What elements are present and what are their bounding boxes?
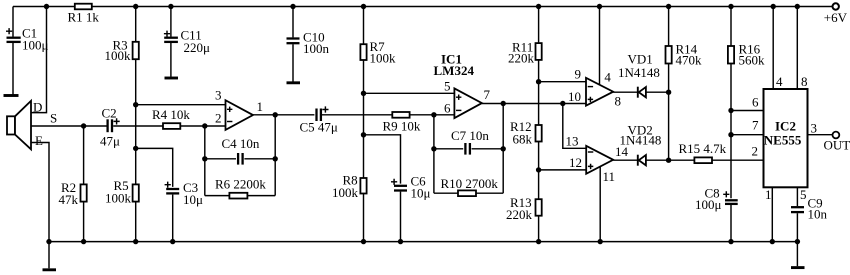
node R14 top rail	[666, 4, 671, 9]
label VD1	[618, 52, 660, 80]
label R12 value	[510, 119, 533, 147]
label C1 value	[22, 26, 49, 53]
svg-text:9: 9	[575, 67, 582, 82]
svg-text:IC2: IC2	[775, 118, 796, 133]
node rail C6	[398, 239, 403, 244]
wire comparator divider vertical	[538, 60, 540, 125]
wire R16 top leg	[730, 7, 732, 47]
wire R8 bottom leg	[363, 194, 365, 242]
wire R15 to pin 2	[712, 159, 764, 161]
svg-text:100n: 100n	[303, 41, 330, 56]
resistor R8	[360, 178, 366, 194]
node C11 top rail	[168, 4, 173, 9]
label C11 value	[181, 28, 211, 56]
ground under C10	[287, 81, 301, 84]
wire pin 5 top leg	[796, 187, 798, 206]
svg-text:5: 5	[800, 187, 807, 202]
terminal OUT	[833, 132, 840, 139]
svg-text:10μ: 10μ	[183, 192, 203, 207]
resistor R13	[536, 199, 542, 216]
node rail C8	[728, 239, 733, 244]
node R7 top rail	[361, 4, 366, 9]
svg-text:13: 13	[566, 134, 579, 149]
svg-text:C5 47μ: C5 47μ	[300, 120, 338, 135]
svg-text:47k: 47k	[59, 192, 79, 207]
label R2 value	[59, 180, 79, 207]
wire op3 power pin 4	[599, 7, 601, 86]
svg-text:100k: 100k	[105, 48, 132, 63]
svg-text:100μ: 100μ	[22, 38, 49, 53]
svg-text:R15 4.7k: R15 4.7k	[679, 141, 727, 156]
wire pin 3 to OUT	[808, 134, 833, 136]
wire to pin 7	[731, 134, 764, 136]
wire C4 branch	[205, 158, 275, 160]
node bias to pin 5	[361, 91, 366, 96]
wire R2 top leg	[83, 126, 85, 184]
label VD2	[620, 123, 662, 148]
label C2 value	[100, 106, 120, 149]
svg-text:560k: 560k	[739, 53, 766, 68]
IC2 NE555 body	[764, 89, 808, 187]
diode VD1	[638, 87, 646, 98]
label R14 value	[676, 42, 703, 68]
ground left	[43, 268, 57, 271]
terminal +6V	[833, 3, 839, 9]
node C7 right	[501, 146, 506, 151]
resistor R6	[229, 193, 247, 199]
node bias to C6	[361, 132, 366, 137]
node rail C9/ground	[795, 239, 800, 244]
wire R12 to R13	[538, 142, 540, 200]
svg-text:E: E	[35, 133, 43, 148]
svg-text:1: 1	[257, 99, 264, 114]
wire C10 top leg	[292, 7, 294, 38]
node divider to pin 9	[536, 79, 541, 84]
wire R14 bottom leg	[668, 64, 670, 93]
svg-text:2: 2	[215, 111, 222, 126]
capacitor C4	[236, 153, 244, 165]
node IC1 output feedback tap	[501, 101, 506, 106]
svg-text:10: 10	[568, 89, 581, 104]
svg-text:LM324: LM324	[434, 63, 475, 78]
svg-text:R9 10k: R9 10k	[383, 119, 421, 134]
svg-text:8: 8	[615, 94, 622, 109]
node pin 4 top rail	[771, 4, 776, 9]
wire C5 to R9	[322, 114, 392, 116]
svg-text:7: 7	[752, 118, 759, 133]
label R11 value	[508, 40, 535, 66]
node rail R8	[361, 239, 366, 244]
wire C10 bottom leg	[292, 44, 294, 81]
wire R13 bottom leg	[538, 216, 540, 242]
resistor R5	[133, 184, 139, 201]
svg-text:8: 8	[801, 74, 808, 89]
node C7 left	[431, 146, 436, 151]
wire R6 branch	[205, 195, 275, 197]
wire IC1 output	[482, 103, 586, 105]
ground under C11	[165, 77, 179, 80]
svg-text:1N4148: 1N4148	[618, 65, 660, 80]
capacitor C1	[6, 28, 21, 42]
svg-text:S: S	[50, 111, 57, 126]
wire feedback2 right vertical	[502, 104, 504, 194]
wire pin 1	[771, 187, 773, 241]
node R16 top rail	[728, 4, 733, 9]
wire C2 to R4	[113, 125, 163, 127]
wire R7 top leg	[363, 7, 365, 45]
label R7 value	[370, 39, 397, 66]
label R3 value	[105, 37, 132, 63]
svg-text:220μ: 220μ	[184, 40, 211, 55]
op-amp U1.1	[226, 100, 254, 130]
label R5 value	[105, 178, 132, 206]
capacitor C5	[314, 106, 328, 121]
node C4 left	[202, 156, 207, 161]
node bias to pin3	[133, 102, 138, 107]
label C3 value	[183, 180, 203, 207]
svg-text:C2: C2	[102, 106, 117, 121]
capacitor C8	[723, 191, 738, 204]
svg-text:+6V: +6V	[824, 10, 848, 25]
wire diode node link	[668, 92, 670, 160]
node bias to C3	[133, 146, 138, 151]
wire feedback2 left vertical	[433, 115, 435, 193]
wire ground stub right	[796, 242, 798, 267]
svg-text:11: 11	[603, 169, 616, 184]
svg-text:OUT: OUT	[824, 138, 850, 153]
resistor R9	[392, 112, 409, 118]
wire op3 output	[613, 91, 668, 93]
svg-text:2: 2	[752, 144, 759, 159]
wire R9 to IC1 pin 6	[410, 114, 455, 116]
wire bias to IC1 pin 5	[364, 92, 455, 94]
svg-text:47μ: 47μ	[100, 134, 120, 149]
wire feedback left vertical	[204, 126, 206, 196]
svg-text:100k: 100k	[332, 185, 359, 200]
svg-text:C7 10n: C7 10n	[451, 128, 489, 143]
wire pin 8	[796, 7, 798, 90]
wire bottom ground rail	[49, 241, 797, 243]
wire C3 bottom leg	[172, 195, 174, 242]
svg-text:10n: 10n	[808, 207, 828, 222]
wire C1 bottom leg	[12, 43, 14, 95]
wire R4 to op-amp pin 2	[180, 125, 225, 127]
svg-text:100μ: 100μ	[695, 197, 722, 212]
svg-text:100k: 100k	[370, 51, 397, 66]
label R16 value	[739, 42, 766, 68]
svg-text:4: 4	[776, 74, 783, 89]
label IC1	[434, 52, 475, 79]
wire op1 output	[253, 114, 316, 116]
node op1 output feedback tap	[273, 112, 278, 117]
resistor R1	[75, 4, 92, 10]
svg-text:R4 10k: R4 10k	[152, 107, 190, 122]
svg-text:220k: 220k	[506, 207, 533, 222]
svg-text:C4 10n: C4 10n	[222, 136, 260, 151]
node rail R5	[133, 239, 138, 244]
capacitor C9	[791, 207, 804, 212]
wire to pin 12	[539, 169, 587, 171]
node C4 right	[273, 156, 278, 161]
wire pin 4	[772, 7, 774, 90]
resistor R14	[666, 46, 672, 64]
svg-text:3: 3	[811, 121, 818, 136]
capacitor C2	[108, 118, 120, 132]
wire R2 bottom leg	[83, 202, 85, 242]
wire C11 top leg	[170, 7, 172, 37]
capacitor C10	[287, 39, 300, 44]
resistor R10	[458, 190, 476, 196]
capacitor C11	[164, 31, 178, 42]
label R13 value	[506, 195, 533, 222]
wire C1 top leg	[12, 7, 14, 37]
svg-text:D: D	[33, 100, 42, 115]
resistor R16	[728, 46, 734, 64]
wire ground stub left	[48, 242, 50, 269]
node op3 power top rail	[597, 4, 602, 9]
svg-text:470k: 470k	[676, 53, 703, 68]
svg-text:R6 2200k: R6 2200k	[215, 176, 266, 191]
op-amp IC1.4	[586, 146, 613, 174]
resistor R7	[360, 44, 366, 60]
wire op4 output	[613, 159, 694, 161]
wire bias divider vertical	[135, 59, 137, 184]
node feedback tap pin 6	[431, 112, 436, 117]
node bias divider top rail	[133, 4, 138, 9]
wire top supply rail	[13, 6, 833, 8]
svg-text:R1 1k: R1 1k	[68, 10, 100, 25]
node rail R2	[81, 239, 86, 244]
svg-text:68k: 68k	[513, 132, 533, 147]
label IC2	[764, 118, 802, 147]
svg-text:NE555: NE555	[764, 133, 802, 148]
diode VD2	[638, 155, 646, 166]
node pin 7 tap	[728, 132, 733, 137]
op-amp IC1.2	[454, 88, 482, 118]
capacitor C3	[165, 182, 180, 194]
node VD2 / R15	[666, 158, 671, 163]
wire C8 bottom leg	[730, 205, 732, 242]
capacitor C7	[463, 143, 471, 155]
wire to pin 9	[539, 81, 586, 83]
wire R16 to timing node	[730, 64, 732, 199]
node C10 top rail	[290, 4, 295, 9]
svg-text:12: 12	[569, 155, 582, 170]
node rail R13	[536, 239, 541, 244]
microphone VM1 body	[7, 116, 15, 134]
resistor R11	[536, 43, 542, 60]
node signal to pin 10	[560, 101, 565, 106]
resistor R12	[536, 125, 542, 142]
node top rail / mic drain	[44, 4, 49, 9]
wire R11 top leg	[538, 7, 540, 44]
node R11 top rail	[536, 4, 541, 9]
svg-text:6: 6	[444, 100, 451, 115]
svg-text:220k: 220k	[508, 51, 535, 66]
node pin 6 tap	[728, 108, 733, 113]
wire R5 bottom leg	[135, 202, 137, 242]
op-amp IC1.3	[586, 78, 613, 106]
node VD1 / R14	[666, 90, 671, 95]
microphone VM1 cone	[15, 101, 31, 149]
svg-text:5: 5	[444, 79, 451, 94]
svg-text:R10 2700k: R10 2700k	[441, 176, 499, 191]
label R8 value	[332, 173, 359, 201]
wire C11 bottom leg	[170, 43, 172, 77]
wire to pin 13	[563, 104, 586, 149]
svg-text:3: 3	[215, 88, 222, 103]
label C9 value	[808, 196, 828, 222]
svg-text:6: 6	[752, 95, 759, 110]
wire jog to C3	[136, 148, 173, 187]
wire feedback right vertical	[274, 115, 276, 196]
label C10 value	[303, 30, 330, 57]
wire C6 bottom leg	[400, 192, 402, 242]
node S / R2 tap	[81, 123, 86, 128]
wire C9 bottom leg	[796, 213, 798, 241]
wire R14 top leg	[668, 7, 670, 47]
wire bias to op-amp pin 3	[136, 104, 226, 106]
wire mic E lead	[31, 143, 49, 242]
capacitor C6	[391, 179, 407, 191]
ground under C1	[4, 94, 19, 97]
wire R7/R8 bias vertical	[363, 60, 365, 178]
node rail pin 1	[770, 239, 775, 244]
svg-text:7: 7	[484, 87, 491, 102]
node pin 8 top rail	[795, 4, 800, 9]
resistor R4	[163, 123, 180, 129]
label C8 value	[695, 186, 722, 213]
wire op4 power pin 11	[599, 167, 601, 242]
svg-text:1: 1	[765, 187, 772, 202]
wire mic S lead	[31, 125, 107, 127]
node feedback tap pin 2	[202, 123, 207, 128]
wire C7 branch	[434, 148, 503, 150]
node rail pin 11	[598, 239, 603, 244]
resistor R15	[694, 157, 712, 163]
resistor R2	[81, 184, 87, 201]
resistor R3	[133, 42, 139, 59]
wire to pin 6	[731, 110, 764, 112]
wire R3 top leg	[135, 7, 137, 42]
wire R10 branch	[434, 192, 503, 194]
ground right	[791, 266, 805, 269]
svg-text:10μ: 10μ	[411, 186, 431, 201]
node rail E/ground	[46, 239, 51, 244]
label C6 value	[411, 174, 431, 201]
svg-text:1N4148: 1N4148	[620, 133, 662, 148]
wire mic D lead	[31, 7, 47, 113]
svg-text:100k: 100k	[105, 191, 132, 206]
node rail C3	[170, 239, 175, 244]
node divider to pin 12	[536, 167, 541, 172]
wire jog to C6	[364, 135, 401, 184]
svg-text:4: 4	[604, 69, 611, 84]
